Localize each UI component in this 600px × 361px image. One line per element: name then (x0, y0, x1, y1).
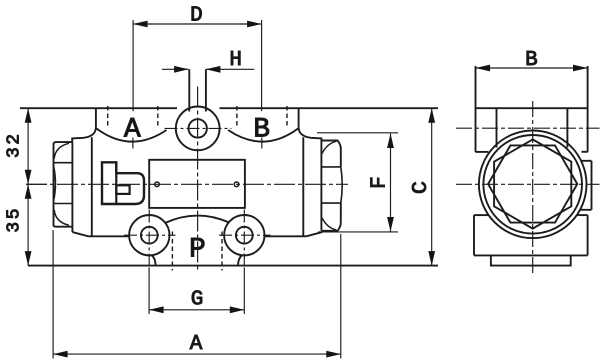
right hex nut: right face lower (340, 203, 342, 223)
right hex nut: top band chamfer arc (322, 141, 336, 153)
dimension G extension line left (148, 267, 150, 314)
dimension H arrow left (174, 66, 189, 73)
left boss horizontal center line (124, 234, 176, 236)
dimension C line (431, 108, 433, 265)
logo counter rectangle (116, 185, 129, 194)
dimension D extension line left (132, 20, 134, 111)
side view top block inner vertical left (496, 108, 498, 147)
side view top block bottom edge left (475, 151, 488, 153)
left hex plug: bottom band chamfer arc (54, 210, 69, 225)
dimension A extension line left (52, 230, 54, 359)
right hex nut: top edge (321, 141, 340, 149)
dimension G arrow left (149, 306, 164, 313)
left mounting boss outer circle (129, 215, 169, 255)
right hex nut: left face (320, 141, 322, 231)
top edge line of valve body (right segment, extends as C top extension) (220, 107, 439, 109)
left hex plug: left face (53, 144, 55, 226)
side view hexagon pointy-side (488, 145, 577, 222)
hidden line port P right (221, 232, 223, 271)
svg-text:C: C (409, 181, 433, 194)
side view bottom big rect left side (473, 215, 475, 255)
port B center tick (261, 138, 263, 149)
side view outer circle (479, 131, 587, 239)
left hex plug: top edge with corner arc (54, 142, 73, 144)
dimension A line (53, 353, 341, 355)
logo stem right edge internal line (115, 162, 117, 204)
dimension C arrow up (428, 108, 435, 123)
hidden line port B right (286, 106, 288, 129)
right hex nut: right face upper (340, 149, 342, 167)
side view top block top edge (476, 107, 588, 109)
side view bottom big rect top edge left (474, 214, 489, 216)
body right edge (302, 137, 304, 236)
top-right flange step (298, 108, 300, 127)
dimension 32/35 line lower segment (27, 184, 29, 265)
small hole left on center line (155, 182, 160, 187)
side view inner ring circle (483, 135, 582, 234)
svg-text:F: F (369, 176, 392, 189)
hidden line port B left (236, 106, 238, 129)
body left edge (91, 137, 93, 236)
dimension A arrow right (326, 351, 341, 358)
dimension F arrow down (387, 217, 394, 232)
dimension B line (476, 67, 588, 69)
hidden line port A left (107, 106, 109, 129)
svg-text:B: B (253, 115, 270, 146)
left boss vertical center line (148, 210, 150, 266)
hidden line port A right (157, 106, 159, 129)
dimension F arrow up (387, 134, 394, 149)
middle extension line for 32/35 (26, 183, 47, 185)
top port outer circle (176, 106, 220, 150)
top port horizontal center line (165, 127, 232, 129)
dimension D line (133, 23, 262, 25)
logo outer shape (102, 162, 144, 204)
side view right boss bottom edge (580, 209, 591, 211)
main horizontal center line (26, 183, 348, 185)
side view right boss right edge (591, 161, 593, 210)
35 arrow down (25, 251, 32, 266)
32 arrow down (25, 170, 32, 185)
svg-text:B: B (525, 49, 538, 72)
bottom-left chamfer (72, 232, 129, 236)
right mounting boss inner circle (236, 227, 253, 244)
right mounting boss outer circle (224, 215, 264, 255)
svg-text:35: 35 (4, 206, 24, 233)
left hex plug: middle band chamfer arc (54, 167, 56, 201)
top port stud right line (205, 69, 207, 111)
bottom edge line of valve body (extends as 35 and C bottom extension) (28, 265, 438, 267)
dimension F extension line bottom (318, 231, 398, 233)
scallop arc under port A (97, 129, 167, 142)
right hex nut: bottom band chamfer arc (322, 218, 336, 230)
left hex plug: top band chamfer arc (54, 143, 69, 158)
svg-text:32: 32 (4, 131, 24, 158)
dimension 32/35 line upper segment (27, 108, 29, 184)
side view horizontal center line main (456, 183, 600, 185)
dimension A extension line right (340, 234, 342, 359)
bottom-right chamfer (264, 232, 322, 236)
top-right shoulder curve (299, 128, 322, 141)
dimension F line (390, 134, 392, 232)
right boss vertical center line (243, 210, 245, 266)
scallop arc under port B (228, 129, 298, 142)
svg-text:G: G (191, 289, 204, 312)
left mounting boss inner circle (141, 227, 158, 244)
right hex nut: middle band bulge arc (341, 167, 342, 203)
svg-text:A: A (190, 333, 203, 356)
side view bottom big rect bottom edge (474, 254, 588, 256)
right hex nut: lower hex edge (321, 202, 340, 204)
hidden line port P left (171, 232, 173, 271)
32 arrow up (25, 108, 32, 123)
small hole right on center line (234, 182, 239, 187)
side view top block inner vertical right (566, 108, 568, 147)
dimension H arrow right (206, 66, 221, 73)
main vertical center line (197, 87, 199, 271)
left hex plug: right face (71, 142, 73, 232)
dimension D arrow right (247, 21, 262, 28)
dimension C arrow down (428, 251, 435, 266)
side view top block left side + B extension (475, 66, 477, 152)
dimension B arrow left (476, 65, 491, 72)
side view bottom small rect (491, 255, 571, 265)
side view right boss top edge (581, 160, 591, 162)
svg-text:P: P (189, 235, 206, 266)
dimension D extension line right (261, 20, 263, 111)
top port stud left line (188, 69, 190, 111)
dimension H line left tail (162, 68, 189, 70)
right boss horizontal center line (219, 234, 271, 236)
fillet at left boss bottom (152, 255, 156, 266)
top-left flange step (95, 108, 97, 127)
dimension B arrow right (573, 65, 588, 72)
right hex nut: bottom edge (321, 223, 340, 231)
fillet at right boss bottom (238, 255, 242, 266)
middle rectangle (nameplate) (149, 160, 245, 208)
dimension G arrow right (230, 306, 245, 313)
port A center tick (132, 138, 134, 149)
side view vertical center line (532, 101, 534, 274)
side view bottom big rect top edge right (577, 214, 588, 216)
dimension G line (149, 309, 244, 311)
side view top block bottom edge right (582, 151, 588, 153)
right hex nut: upper hex edge (321, 166, 340, 168)
dimension D arrow left (133, 21, 148, 28)
svg-text:H: H (229, 49, 242, 72)
35 arrow up (25, 184, 32, 199)
dimension F extension line top (317, 132, 398, 134)
top-left shoulder curve (72, 128, 96, 143)
side view hexagon pointy-top (494, 139, 571, 228)
dimension G extension line right (243, 267, 245, 314)
side view horizontal center line upper (456, 127, 600, 129)
side view top block right side + B extension (587, 66, 589, 152)
side view bottom big rect right side (587, 215, 589, 255)
left hex plug: upper hex edge (54, 162, 73, 164)
svg-text:D: D (190, 5, 203, 28)
svg-text:A: A (124, 115, 141, 146)
bottom scallop arc between bosses (165, 216, 229, 223)
left hex plug: lower hex edge (54, 203, 73, 205)
dimension H line right tail (206, 68, 254, 70)
top port inner circle (189, 119, 207, 137)
left hex plug: bottom edge with corner arc (54, 226, 73, 227)
dimension A arrow left (53, 351, 68, 358)
top edge line of valve body (left segment) (20, 107, 177, 109)
